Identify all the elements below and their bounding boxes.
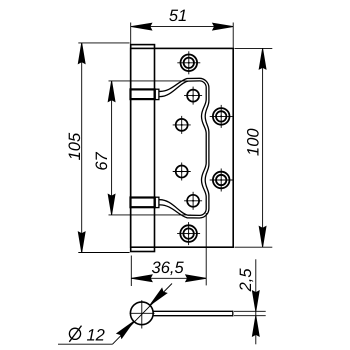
diameter 12 leader line	[58, 284, 172, 345]
svg-text:51: 51	[169, 7, 187, 25]
countersunk screw hole right lower	[210, 169, 233, 192]
small hole inner leaf 3	[173, 163, 191, 181]
top sleeve collar	[131, 89, 155, 99]
side view leaves bar	[153, 311, 233, 317]
top collar tab	[155, 89, 159, 99]
svg-text:100: 100	[244, 128, 262, 156]
hinge outer leaf plate	[131, 48, 234, 247]
side view pin circle	[130, 302, 153, 325]
countersunk screw hole bottom	[177, 222, 200, 245]
dimension 36,5 (bottom, inner leaf width)	[131, 213, 206, 286]
inner leaf contour outer line	[159, 78, 209, 218]
svg-text:67: 67	[93, 152, 111, 171]
small hole inner leaf 2	[173, 116, 191, 134]
diameter symbol	[69, 326, 81, 342]
svg-text:2,5: 2,5	[237, 268, 255, 293]
countersunk screw hole right upper	[210, 105, 233, 128]
dimension 105 (left, barrel height)	[78, 43, 129, 253]
inner leaf contour inner line	[159, 81, 206, 216]
bottom collar tab	[155, 197, 159, 207]
small hole inner leaf 4	[184, 192, 202, 210]
dimension 51 (top width)	[131, 23, 234, 48]
dimension 67 (inner leaf height)	[108, 81, 191, 215]
bottom sleeve collar	[131, 198, 155, 208]
dimension 2,5 (leaf thickness, side view)	[234, 259, 266, 344]
countersunk screw hole top	[177, 51, 200, 74]
svg-text:105: 105	[66, 132, 84, 160]
dimension 100 (right, plate height)	[235, 48, 273, 247]
hinge barrel (knuckle tube)	[131, 45, 155, 252]
side view circle centerlines	[130, 300, 155, 328]
small hole inner leaf 1	[184, 87, 202, 105]
svg-text:12: 12	[87, 327, 105, 345]
svg-text:36,5: 36,5	[152, 259, 185, 277]
